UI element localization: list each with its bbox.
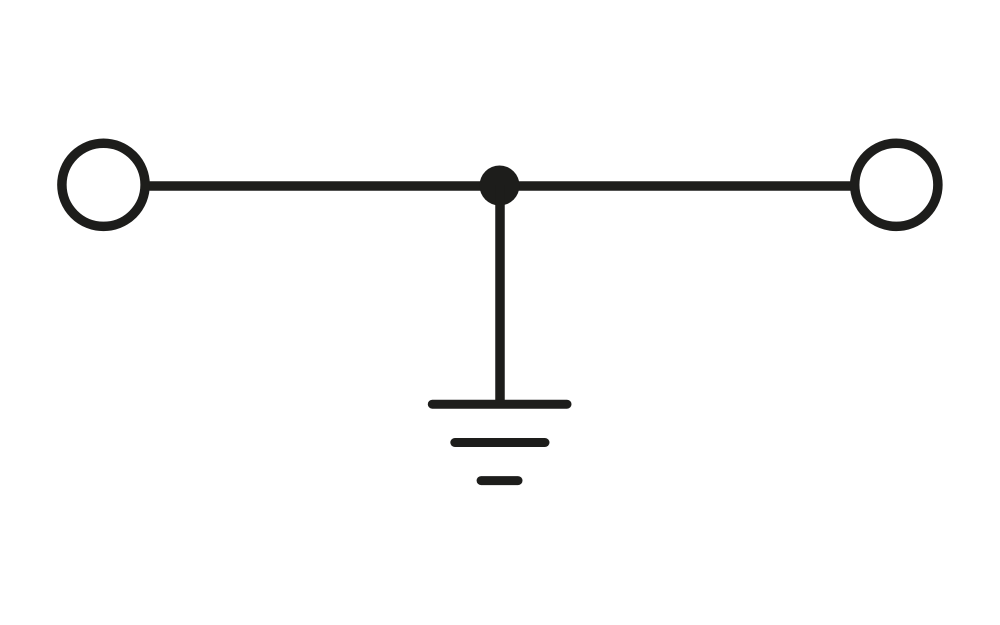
terminal circle right: [855, 143, 938, 226]
wire: left terminal to junction: [150, 181, 501, 191]
terminal circle left: [62, 143, 145, 226]
junction node: [480, 166, 520, 206]
wire: junction to right terminal: [500, 181, 851, 191]
wire: junction down to ground: [495, 185, 505, 404]
ground: [432, 404, 567, 480]
